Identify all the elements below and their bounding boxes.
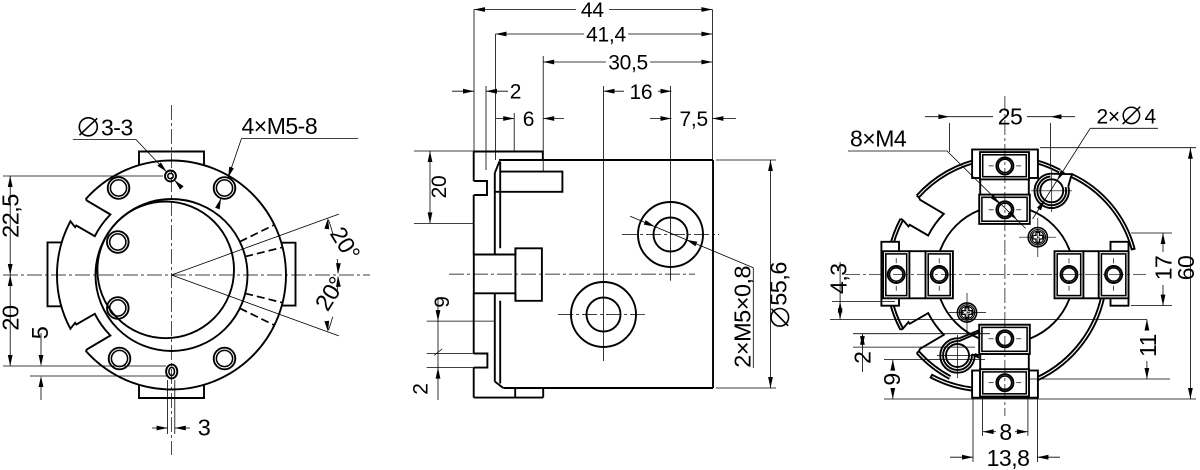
bottom base plate (972, 371, 1038, 398)
screw M4 left-2 (931, 266, 948, 283)
eyelet d4 bottom-left (940, 338, 974, 372)
ext 949.4 (948, 123, 950, 152)
middle lower hole v-centerline (603, 86, 605, 361)
ticks left screw2 (938, 258, 940, 263)
middle notch lower (474, 354, 488, 368)
phillips screw lower-left (957, 303, 976, 322)
leader 8xM4 (848, 150, 947, 152)
hole M5 top-right (214, 177, 236, 199)
dim 20 mid (429, 151, 431, 223)
middle upper hole h-centerline (622, 234, 719, 236)
svg-text:2: 2 (850, 352, 876, 364)
left view eccentric inner circle (97, 202, 234, 339)
middle lower hole h-centerline (558, 314, 648, 316)
ext 379 (1030, 378, 1170, 380)
right block outer (1099, 251, 1129, 298)
right brush carrier (1055, 251, 1129, 298)
svg-text:30,5: 30,5 (608, 52, 648, 75)
ext 474 (473, 10, 475, 154)
ext 1050.4 (1049, 123, 1051, 167)
ext line top hole (3, 175, 163, 177)
svg-text:3: 3 (198, 415, 211, 441)
ext line slot bottom (30, 375, 167, 377)
dim d55,6 line (770, 160, 772, 388)
left view vertical centerline (171, 105, 173, 455)
dim 30,5 (543, 61, 606, 63)
dim 6 (496, 118, 514, 120)
ticks bottom screw2 (989, 338, 994, 340)
svg-text:8×M4: 8×M4 (850, 126, 907, 152)
svg-text:5: 5 (27, 326, 53, 339)
top eccentric rim band (1071, 174, 1135, 249)
middle upper hole v-centerline (670, 86, 672, 281)
ticks right screw1 (1068, 258, 1070, 263)
ext line slot top (3, 365, 166, 367)
svg-text:13,8: 13,8 (987, 445, 1030, 470)
rim cap lower notch2 (917, 351, 919, 353)
label d3-3 shelf (73, 138, 136, 140)
bottom eccentric rim band (931, 296, 1105, 392)
label 2xd4 shelf (1090, 127, 1158, 129)
svg-text:2: 2 (410, 383, 433, 394)
ticks right screw2 (1113, 258, 1115, 263)
slot 3x5 bottom (166, 365, 177, 379)
ext 147.7 (1040, 147, 1196, 149)
left block outer (883, 251, 909, 298)
ext 333.7 (853, 333, 990, 335)
ray -20deg (172, 275, 339, 336)
dim 9 right-view (892, 360, 894, 370)
top block lower (979, 195, 1030, 224)
left view left tab (48, 242, 63, 306)
left view top tab (139, 152, 204, 166)
dim 17 (1162, 233, 1164, 252)
middle chamfer bottom (495, 382, 504, 389)
ext 973 (972, 399, 974, 462)
middle top tab (474, 152, 543, 161)
rim cap lower notch (900, 329, 903, 330)
left brush carrier (883, 251, 953, 298)
eyelet1 centerlines (1051, 170, 1053, 212)
svg-text:60: 60 (1173, 256, 1199, 281)
middle shaft boss (474, 248, 542, 300)
svg-text:9: 9 (431, 296, 454, 307)
ticks top screw2 (989, 209, 994, 211)
ext 495.5 (495, 34, 497, 160)
ext 1027.9 (1027, 399, 1029, 436)
ext 359.6 (884, 359, 985, 361)
dim 8 (983, 431, 996, 433)
dim line 5 (40, 333, 42, 365)
svg-text:16: 16 (630, 81, 653, 104)
ext 514.2 (513, 113, 515, 152)
screw M4 top-1 (996, 157, 1013, 174)
svg-text:11: 11 (1135, 334, 1161, 357)
dim 7,5 (650, 118, 672, 120)
hole mid-left upper (107, 231, 129, 253)
small hole d3 top (165, 171, 176, 182)
ext 319.5 long (830, 319, 1147, 321)
dim 11 (1146, 320, 1148, 331)
svg-text:6: 6 (523, 108, 534, 131)
hidden slot edge +26 (240, 225, 275, 242)
middle body bottom edge (504, 387, 714, 389)
ext 712.4 (711, 10, 713, 161)
screw M4 top-2 (996, 201, 1013, 218)
left view bottom tab (139, 385, 204, 399)
right rim outer arc left (887, 219, 901, 330)
svg-text:3-3: 3-3 (101, 115, 133, 141)
rim cap upper notch2 (900, 219, 903, 220)
hole mid-left lower (107, 297, 129, 319)
ext 223.4 (414, 222, 474, 224)
middle hole upper M5 (638, 202, 703, 267)
svg-text:20: 20 (428, 176, 451, 199)
middle ledge (495, 172, 563, 192)
right rim outer arc lower-left (917, 353, 950, 379)
top brush carrier (979, 152, 1030, 224)
ext body bottom right (716, 387, 776, 389)
svg-text:22,5: 22,5 (0, 194, 24, 238)
dim 3 arrows (152, 427, 168, 429)
dim 16 (604, 90, 624, 92)
right vertical centerline (1004, 96, 1006, 416)
left base plate (881, 242, 899, 306)
rim cap upper notch (917, 195, 919, 197)
ext line slot side R (174, 380, 176, 434)
ext 321 (427, 320, 495, 322)
left view right tab (282, 243, 296, 306)
screw M4 left-1 (888, 266, 905, 283)
top block upper (980, 152, 1029, 179)
svg-text:20: 20 (0, 305, 24, 331)
leader 2xd4 (1033, 128, 1091, 219)
hidden slot edge +14 (245, 247, 282, 256)
ext 353.5 (427, 353, 474, 355)
screw M4 bottom-2 (996, 330, 1013, 347)
svg-text:55,6: 55,6 (766, 262, 792, 306)
left view outer flange profile with bayonet notches (57, 160, 286, 389)
middle body right edge (712, 160, 714, 388)
ext 486 (485, 86, 487, 170)
ext 367.6 (427, 367, 478, 369)
middle plate edge outer upper (494, 173, 496, 255)
dim 41,4 (496, 33, 585, 35)
middle bottom tab (474, 397, 544, 399)
right view main profile (889, 159, 1059, 376)
left view horizontal centerline (3, 274, 370, 276)
dim 25 (925, 116, 949, 118)
leader 2xM5 (630, 216, 753, 267)
angular dim arc upper 20deg (336, 259, 339, 273)
label d3-3 symbol (79, 118, 97, 136)
dim 2 right-view (861, 334, 863, 372)
right base plate (1111, 242, 1129, 306)
ext 305.6 (1131, 305, 1172, 307)
screw M4 right-2 (1105, 266, 1122, 283)
label 4xM5-8 shelf (242, 138, 359, 140)
ext 982.6 (982, 399, 984, 436)
ext 301.5 (832, 301, 895, 303)
ext 399 long (884, 398, 1196, 400)
top band cap (1132, 248, 1135, 251)
svg-text:2×: 2× (1097, 106, 1120, 129)
svg-text:41,4: 41,4 (586, 24, 626, 47)
eyelet2 centerlines (957, 335, 959, 378)
svg-text:9: 9 (879, 373, 905, 385)
screw M4 bottom-1 (996, 374, 1013, 391)
hole M5 top-left (108, 177, 130, 199)
bottom block upper (979, 325, 1030, 354)
bottom brush carrier (979, 325, 1030, 397)
hidden slot edge -26 (240, 308, 275, 325)
middle plate edge inner lower (499, 301, 501, 384)
ext body top right (716, 159, 776, 161)
dim 2 top (452, 90, 474, 92)
right inner circle (936, 205, 1074, 343)
bottom block lower (980, 369, 1029, 396)
middle column left edge (473, 152, 475, 182)
phillips screw upper-right (1028, 228, 1047, 247)
middle hole lower M5 (571, 282, 636, 347)
leader d3-3 (136, 139, 167, 172)
ext 543.2 (542, 56, 544, 172)
svg-text:7,5: 7,5 (680, 108, 708, 131)
svg-text:44: 44 (581, 0, 604, 22)
dim line 22,5+20 (9, 176, 11, 366)
svg-text:4×M5-8: 4×M5-8 (242, 113, 318, 139)
svg-text:8: 8 (999, 419, 1011, 445)
middle body top edge (499, 159, 713, 161)
leader 4xM5-8 (228, 139, 242, 178)
ticks top screw1 (989, 165, 994, 167)
right horizontal centerline (845, 273, 1146, 275)
ext 233 (1131, 232, 1172, 234)
ticks left screw1 (895, 258, 897, 263)
middle plate edge inner upper (499, 162, 501, 249)
ticks bottom screw1 (989, 382, 994, 384)
svg-text:2: 2 (510, 81, 521, 104)
svg-text:4: 4 (1145, 106, 1157, 129)
eyelet d4 top-right (1035, 174, 1069, 208)
hole M5 bottom-right (214, 348, 236, 370)
dim 9 mid (437, 297, 439, 354)
ray +20deg (172, 214, 339, 275)
top base plate (972, 150, 1038, 179)
hole M5 bottom-left (109, 348, 131, 370)
middle chamfer top (495, 161, 500, 173)
svg-text:25: 25 (998, 103, 1023, 129)
dim 44 (474, 9, 576, 11)
middle horizontal centerline (449, 273, 695, 275)
svg-text:4,3: 4,3 (826, 263, 852, 293)
right rim outer arc main (917, 156, 1061, 195)
right block inner (1055, 251, 1084, 298)
svg-text:2×M5×0,8: 2×M5×0,8 (730, 265, 756, 367)
middle notch upper (474, 181, 487, 195)
hidden slot edge -14 (245, 293, 282, 302)
left view bore circle d55.6 (96, 199, 248, 351)
left block inner (926, 251, 953, 298)
dim 60 (1189, 148, 1191, 399)
angular dim arc lower 20deg (336, 277, 339, 291)
ext 1037.4 (1036, 399, 1038, 462)
dim 13,8 (950, 456, 973, 458)
ext 151 left (414, 150, 474, 152)
screw M4 right-1 (1061, 266, 1078, 283)
middle plate edge outer lower (494, 293, 496, 381)
ext 347.1 (853, 346, 975, 348)
ext line slot side L (167, 380, 169, 434)
dim 4,3 (839, 262, 841, 320)
